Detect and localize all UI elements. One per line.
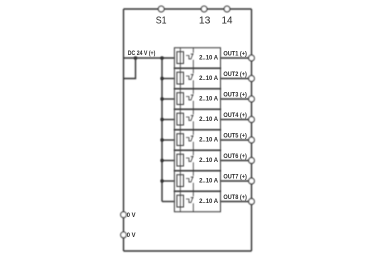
circuit breaker channel 6 (fuse F6 + breaker Q6, 2..10 A): [174, 150, 220, 171]
wire: output OUT3: [221, 98, 252, 100]
svg-text:OUT7 (+): OUT7 (+): [223, 173, 247, 180]
svg-text:OUT4 (+): OUT4 (+): [223, 112, 247, 119]
terminal OUT6: [249, 158, 255, 164]
svg-text:OUT1 (+): OUT1 (+): [223, 50, 247, 57]
junction: bus node row 1: [160, 56, 163, 59]
circuit breaker channel 3 (fuse F3 + breaker Q3, 2..10 A): [174, 89, 220, 110]
wire: distribution bus: [161, 58, 163, 202]
junction: bus node row 7: [160, 179, 163, 182]
wire: output OUT7: [221, 180, 252, 182]
wire: DC 24 V feed: [124, 57, 175, 59]
wire: top supply rail: [124, 8, 252, 10]
svg-text:2..10 A: 2..10 A: [199, 116, 218, 123]
wire: bus stub to channel 7: [162, 180, 174, 182]
wire: output OUT8: [221, 201, 252, 203]
wire: bus stub to channel 8: [162, 201, 174, 203]
wire: output OUT4: [221, 119, 252, 121]
wire: output OUT6: [221, 160, 252, 162]
svg-text:OUT8 (+): OUT8 (+): [223, 194, 247, 201]
terminal 0 V (first): [121, 212, 127, 218]
wire: output OUT5: [221, 139, 252, 141]
wire: bus stub to channel 3: [162, 98, 174, 100]
svg-text:S1: S1: [156, 16, 167, 27]
wire: output OUT1: [221, 57, 252, 59]
terminal OUT2: [249, 76, 255, 82]
wire: bus stub to channel 5: [162, 139, 174, 141]
svg-text:OUT3 (+): OUT3 (+): [223, 91, 247, 98]
junction: bus node row 6: [160, 159, 163, 162]
svg-text:0 V: 0 V: [127, 232, 137, 239]
circuit breaker channel 2 (fuse F2 + breaker Q2, 2..10 A): [174, 68, 220, 89]
wire: right output rail: [251, 9, 253, 251]
svg-text:2..10 A: 2..10 A: [199, 96, 218, 103]
wire: bus stub to channel 4: [162, 119, 174, 121]
terminal OUT3: [249, 96, 255, 102]
svg-text:14: 14: [222, 16, 233, 27]
junction: feed/jumper node: [134, 56, 137, 59]
terminal 14: [224, 6, 230, 12]
circuit breaker channel 1 (fuse F1 + breaker Q1, 2..10 A): [174, 48, 220, 69]
circuit breaker channel 4 (fuse F4 + breaker Q4, 2..10 A): [174, 109, 220, 130]
svg-text:0 V: 0 V: [127, 212, 137, 219]
wire: bottom return rail: [124, 250, 252, 252]
wire: feed jumper loop: [124, 58, 136, 79]
junction: bus node row 4: [160, 118, 163, 121]
circuit breaker channel 8 (fuse F8 + breaker Q8, 2..10 A): [174, 191, 220, 212]
svg-text:2..10 A: 2..10 A: [199, 55, 218, 62]
terminal OUT7: [249, 178, 255, 184]
terminal 0 V (second): [121, 232, 127, 238]
svg-text:OUT6 (+): OUT6 (+): [223, 153, 247, 160]
svg-text:OUT2 (+): OUT2 (+): [223, 71, 247, 78]
svg-text:2..10 A: 2..10 A: [199, 198, 218, 205]
junction: bus node row 2: [160, 77, 163, 80]
wire: left rail (0 V side): [123, 9, 125, 251]
circuit breaker channel 7 (fuse F7 + breaker Q7, 2..10 A): [174, 171, 220, 192]
svg-text:DC 24 V (+): DC 24 V (+): [128, 50, 156, 57]
junction: bus node row 5: [160, 138, 163, 141]
terminal OUT8: [249, 199, 255, 205]
svg-text:2..10 A: 2..10 A: [199, 157, 218, 164]
svg-text:2..10 A: 2..10 A: [199, 137, 218, 144]
terminal OUT4: [249, 117, 255, 123]
wire: output OUT2: [221, 78, 252, 80]
terminal 13: [201, 6, 207, 12]
terminal S1: [158, 6, 164, 12]
wire: bus stub to channel 6: [162, 160, 174, 162]
terminal OUT1: [249, 55, 255, 61]
wire: bus stub to channel 2: [162, 78, 174, 80]
junction: bus node row 3: [160, 97, 163, 100]
svg-text:OUT5 (+): OUT5 (+): [223, 132, 247, 139]
svg-text:2..10 A: 2..10 A: [199, 178, 218, 185]
circuit breaker channel 5 (fuse F5 + breaker Q5, 2..10 A): [174, 130, 220, 151]
svg-text:13: 13: [199, 16, 211, 27]
terminal OUT5: [249, 137, 255, 143]
svg-text:2..10 A: 2..10 A: [199, 75, 218, 82]
